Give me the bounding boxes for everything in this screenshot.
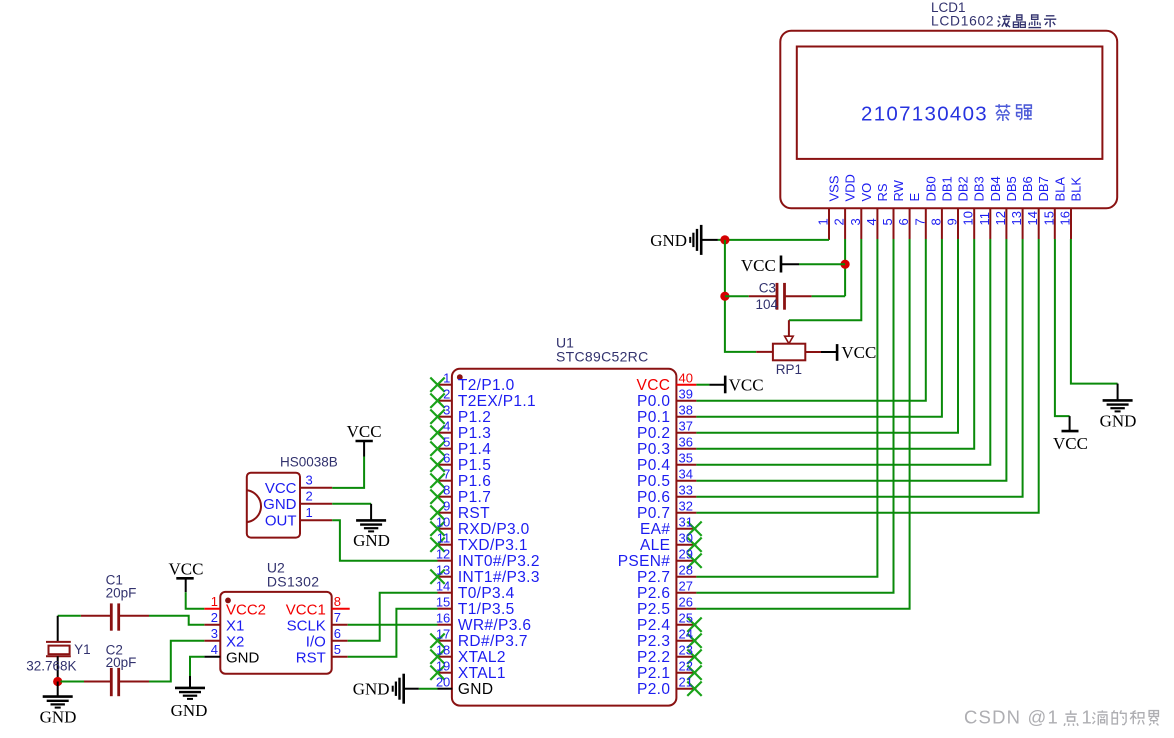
LCD1 pin 3 VO stub xyxy=(860,208,862,239)
U1 pin 13 INT1#/P3.3 stub xyxy=(438,576,453,578)
wire P0.3 to DB3 xyxy=(696,239,974,449)
U1 pin 8 P1.7 stub xyxy=(438,496,453,498)
svg-text:7: 7 xyxy=(443,467,450,482)
svg-text:40: 40 xyxy=(679,371,693,386)
ground at LCD VSS xyxy=(700,225,703,255)
svg-text:27: 27 xyxy=(679,579,693,594)
HS0038B lens arc xyxy=(247,490,261,522)
svg-text:X2: X2 xyxy=(226,634,244,651)
svg-text:18: 18 xyxy=(436,643,450,658)
capacitor C2 xyxy=(84,681,111,683)
svg-text:I/O: I/O xyxy=(306,634,326,651)
U2 pin 2 X1 stub xyxy=(204,624,220,626)
svg-text:13: 13 xyxy=(436,563,450,578)
svg-text:CSDN @1: CSDN @1 xyxy=(964,707,1059,728)
svg-text:5: 5 xyxy=(334,642,341,657)
LCD1 pin 8 DB1 stub xyxy=(941,208,943,239)
svg-text:VO: VO xyxy=(859,183,874,202)
ground below U2 xyxy=(189,676,191,687)
svg-text:T1/P3.5: T1/P3.5 xyxy=(458,601,515,618)
svg-text:1: 1 xyxy=(816,218,831,225)
svg-text:P1.5: P1.5 xyxy=(458,457,491,474)
svg-text:6: 6 xyxy=(443,451,450,466)
LCD1 pin 5 RW stub xyxy=(893,208,895,239)
svg-text:PSEN#: PSEN# xyxy=(618,553,671,570)
svg-text:11: 11 xyxy=(977,212,992,226)
wire VO to RP1 wiper xyxy=(789,239,861,320)
svg-text:P1.2: P1.2 xyxy=(458,409,491,426)
svg-text:GND: GND xyxy=(1100,412,1137,431)
svg-text:P2.7: P2.7 xyxy=(637,569,670,586)
svg-text:36: 36 xyxy=(679,435,693,450)
U1 pin 17 RD#/P3.7 stub xyxy=(438,640,453,642)
svg-text:VCC: VCC xyxy=(637,377,671,394)
svg-text:P1.7: P1.7 xyxy=(458,489,491,506)
HS0038B pin 2 GND stub xyxy=(300,503,332,505)
svg-text:25: 25 xyxy=(679,611,693,626)
U1 pin 22 P2.1 stub xyxy=(676,672,696,674)
U1 pin 4 P1.3 stub xyxy=(438,432,453,434)
svg-text:DB7: DB7 xyxy=(1036,176,1051,201)
U1 pin 22 no-connect X xyxy=(687,666,701,680)
junction Y1 C2 GND xyxy=(53,677,62,686)
U1 pin 30 ALE stub xyxy=(676,544,696,546)
U1 pin 10 no-connect X xyxy=(430,522,444,536)
svg-text:3: 3 xyxy=(443,403,450,418)
U2 body xyxy=(220,592,331,674)
svg-text:P2.5: P2.5 xyxy=(637,601,670,618)
svg-text:P0.7: P0.7 xyxy=(637,505,670,522)
U1 pin 18 XTAL2 stub xyxy=(438,656,453,658)
svg-text:2107130403: 2107130403 xyxy=(861,102,988,125)
svg-text:RW: RW xyxy=(891,179,906,201)
wire X1 net top rail xyxy=(58,615,81,617)
U1 pin 24 no-connect X xyxy=(687,634,701,648)
svg-text:BLA: BLA xyxy=(1052,177,1067,202)
wire U2 RST to U1 T1 xyxy=(348,609,438,657)
LCD1 pin 9 DB2 stub xyxy=(957,208,959,239)
U1 pin 9 no-connect X xyxy=(430,506,444,520)
U2 pin-1 marker dot xyxy=(225,598,231,604)
LCD1 display CJK 蔡强 xyxy=(995,104,1010,121)
power port VCC at RP1 xyxy=(821,351,837,353)
svg-text:P0.4: P0.4 xyxy=(637,457,670,474)
svg-text:11: 11 xyxy=(437,531,451,546)
svg-text:VCC1: VCC1 xyxy=(286,602,326,619)
U1 pin 25 P2.4 stub xyxy=(676,624,696,626)
crystal Y1 xyxy=(57,616,59,642)
svg-text:T2/P1.0: T2/P1.0 xyxy=(458,377,515,394)
svg-text:23: 23 xyxy=(679,643,693,658)
wire P0.6 to DB6 xyxy=(696,239,1022,497)
svg-text:2: 2 xyxy=(832,218,847,225)
svg-text:DB5: DB5 xyxy=(1004,176,1019,201)
U1 pin 11 no-connect X xyxy=(430,538,444,552)
U1 pin 10 RXD/P3.0 stub xyxy=(438,528,453,530)
svg-text:GND: GND xyxy=(171,701,208,720)
wire U1 pin40 to VCC xyxy=(696,384,709,386)
wire U2 I/O to U1 T0 xyxy=(348,593,438,641)
wire X2 net bottom rail xyxy=(61,681,85,683)
U1 pin 26 P2.5 stub xyxy=(676,608,696,610)
wire P2.5 to E xyxy=(696,239,909,609)
svg-text:RST: RST xyxy=(458,505,490,522)
potentiometer RP1 wiper arrow xyxy=(788,320,790,336)
U1 pin 37 P0.2 stub xyxy=(676,432,696,434)
svg-text:GND: GND xyxy=(353,680,390,699)
wire HS0038B OUT to U1 INT0 xyxy=(332,520,437,561)
power port VCC below BLA xyxy=(1069,416,1071,431)
svg-text:24: 24 xyxy=(679,627,693,642)
svg-text:GND: GND xyxy=(40,708,77,727)
svg-text:RXD/P3.0: RXD/P3.0 xyxy=(458,521,530,538)
U1 pin 35 P0.4 stub xyxy=(676,464,696,466)
svg-text:1: 1 xyxy=(306,505,313,520)
svg-text:8: 8 xyxy=(443,483,450,498)
svg-text:2: 2 xyxy=(306,489,313,504)
LCD1 pin 7 DB0 stub xyxy=(925,208,927,239)
svg-text:P2.0: P2.0 xyxy=(637,681,670,698)
svg-text:29: 29 xyxy=(679,547,693,562)
wire P2.6 to RW xyxy=(696,239,893,593)
svg-text:22: 22 xyxy=(679,659,693,674)
svg-text:RP1: RP1 xyxy=(776,362,802,377)
svg-text:TXD/P3.1: TXD/P3.1 xyxy=(458,537,528,554)
junction VSS net xyxy=(720,235,729,244)
ground below HS0038B xyxy=(370,504,372,520)
svg-text:P0.6: P0.6 xyxy=(637,489,670,506)
svg-text:VCC: VCC xyxy=(169,560,204,579)
svg-text:P2.2: P2.2 xyxy=(637,649,670,666)
capacitor C1 xyxy=(81,615,112,617)
U1 pin 9 RST stub xyxy=(438,512,453,514)
svg-text:P1.6: P1.6 xyxy=(458,473,491,490)
U1 pin 2 no-connect X xyxy=(430,394,444,408)
svg-text:31: 31 xyxy=(679,515,693,530)
U1 pin 2 T2EX/P1.1 stub xyxy=(438,400,453,402)
svg-text:HS0038B: HS0038B xyxy=(280,455,338,470)
U1 pin 14 T0/P3.4 stub xyxy=(438,592,453,594)
potentiometer RP1 left lead xyxy=(756,351,773,353)
svg-text:37: 37 xyxy=(679,419,693,434)
U2 pin 1 VCC2 stub xyxy=(204,608,220,610)
U2 pin 6 I/O stub xyxy=(332,640,348,642)
U1 pin 19 XTAL1 stub xyxy=(438,672,453,674)
LCD1 pin 1 VSS stub xyxy=(828,208,830,240)
svg-text:DB6: DB6 xyxy=(1020,176,1035,201)
U1 pin 38 P0.1 stub xyxy=(676,416,696,418)
power port VCC at U1 pin40 xyxy=(709,384,725,386)
svg-text:19: 19 xyxy=(436,659,450,674)
svg-text:15: 15 xyxy=(436,595,450,610)
wire VSS to ground xyxy=(718,239,829,241)
svg-text:16: 16 xyxy=(436,611,450,626)
U1 pin 7 P1.6 stub xyxy=(438,480,453,482)
U1 pin 27 P2.6 stub xyxy=(676,592,696,594)
ground below Y1 xyxy=(57,682,59,696)
U1 pin 29 no-connect X xyxy=(687,554,701,568)
svg-text:3: 3 xyxy=(848,218,863,225)
svg-text:DS1302: DS1302 xyxy=(267,574,319,590)
svg-text:Y1: Y1 xyxy=(74,642,91,657)
svg-text:OUT: OUT xyxy=(265,512,297,529)
watermark CJK 点1滴的积累 xyxy=(1064,710,1078,725)
wire P0.1 to DB1 xyxy=(696,239,942,417)
LCD1 pin 10 DB3 stub xyxy=(973,208,975,239)
U1 pin 29 PSEN# stub xyxy=(676,560,696,562)
HS0038B body xyxy=(247,473,300,538)
svg-text:SCLK: SCLK xyxy=(287,618,326,635)
svg-text:33: 33 xyxy=(679,483,693,498)
svg-text:20pF: 20pF xyxy=(106,586,137,601)
LCD1 outer body xyxy=(780,31,1117,209)
svg-text:P0.2: P0.2 xyxy=(637,425,670,442)
U1 pin 15 T1/P3.5 stub xyxy=(438,608,453,610)
wire BLK to GND xyxy=(1071,239,1118,384)
U2 pin 4 GND stub xyxy=(204,656,220,658)
svg-text:P1.3: P1.3 xyxy=(458,425,491,442)
svg-text:C3: C3 xyxy=(759,281,776,296)
svg-text:VCC2: VCC2 xyxy=(226,602,266,619)
svg-text:GND: GND xyxy=(650,231,687,250)
svg-text:7: 7 xyxy=(334,610,341,625)
U1 pin 21 P2.0 stub xyxy=(676,688,696,690)
svg-text:INT0#/P3.2: INT0#/P3.2 xyxy=(458,553,540,570)
svg-text:15: 15 xyxy=(1041,211,1056,225)
svg-text:DB0: DB0 xyxy=(923,176,938,201)
svg-text:12: 12 xyxy=(436,547,450,562)
LCD1 pin 14 DB7 stub xyxy=(1038,208,1040,239)
svg-text:4: 4 xyxy=(864,218,879,225)
wire P0.7 to DB7 xyxy=(696,239,1038,513)
svg-text:EA#: EA# xyxy=(640,521,670,538)
svg-text:ALE: ALE xyxy=(640,537,670,554)
U1 pin 3 P1.2 stub xyxy=(438,416,453,418)
U1 pin 17 no-connect X xyxy=(430,634,444,648)
wire HS0038B pin3 to VCC xyxy=(332,457,364,488)
svg-text:XTAL2: XTAL2 xyxy=(458,649,506,666)
svg-text:VCC: VCC xyxy=(1053,434,1088,453)
svg-text:1: 1 xyxy=(443,371,450,386)
U1 pin-1 marker dot xyxy=(457,374,463,380)
U1 pin 1 T2/P1.0 stub xyxy=(438,384,453,386)
svg-text:T2EX/P1.1: T2EX/P1.1 xyxy=(458,393,536,410)
U1 pin 31 EA# stub xyxy=(676,528,696,530)
svg-text:26: 26 xyxy=(679,595,693,610)
U1 pin 20 GND stub xyxy=(438,688,453,690)
U1 pin 36 P0.3 stub xyxy=(676,448,696,450)
svg-text:17: 17 xyxy=(436,627,450,642)
svg-text:P0.0: P0.0 xyxy=(637,393,670,410)
svg-text:P0.5: P0.5 xyxy=(637,473,670,490)
U1 pin 33 P0.6 stub xyxy=(676,496,696,498)
svg-text:20: 20 xyxy=(436,675,450,690)
svg-text:6: 6 xyxy=(334,626,341,641)
U2 pin 3 X2 stub xyxy=(204,640,220,642)
U1 pin 25 no-connect X xyxy=(687,618,701,632)
svg-text:VCC: VCC xyxy=(265,480,297,497)
U2 pin 5 RST stub xyxy=(332,656,348,658)
junction VDD VCC xyxy=(841,260,850,269)
svg-text:WR#/P3.6: WR#/P3.6 xyxy=(458,617,531,634)
U1 pin 40 VCC stub xyxy=(676,384,696,386)
U1 pin 24 P2.3 stub xyxy=(676,640,696,642)
U1 pin 6 P1.5 stub xyxy=(438,464,453,466)
svg-text:GND: GND xyxy=(353,531,390,550)
svg-text:P1.4: P1.4 xyxy=(458,441,491,458)
svg-text:10: 10 xyxy=(436,515,450,530)
svg-text:VDD: VDD xyxy=(843,174,858,201)
wire VCC to VDD junction xyxy=(799,263,845,265)
wire C3 right to VDD net xyxy=(812,295,846,297)
U1 pin 16 WR#/P3.6 stub xyxy=(438,624,453,626)
svg-text:GND: GND xyxy=(458,681,494,698)
LCD1 pin 4 RS stub xyxy=(876,208,878,239)
svg-text:DB4: DB4 xyxy=(988,176,1003,201)
svg-text:RD#/P3.7: RD#/P3.7 xyxy=(458,633,528,650)
svg-text:E: E xyxy=(907,193,922,202)
svg-text:1: 1 xyxy=(211,594,218,609)
LCD1 pin 6 E stub xyxy=(909,208,911,239)
svg-text:32: 32 xyxy=(679,499,693,514)
svg-text:2: 2 xyxy=(211,610,218,625)
svg-text:104: 104 xyxy=(755,297,778,312)
svg-text:GND: GND xyxy=(263,496,297,513)
wire U2 pin4 to GND xyxy=(190,657,204,676)
svg-text:X1: X1 xyxy=(226,618,244,635)
wire VCC to U2 pin1 xyxy=(186,592,205,609)
svg-text:BLK: BLK xyxy=(1069,177,1084,202)
svg-text:14: 14 xyxy=(436,579,450,594)
U1 pin 4 no-connect X xyxy=(430,426,444,440)
U1 body xyxy=(452,369,677,706)
svg-text:DB1: DB1 xyxy=(939,176,954,201)
svg-text:INT1#/P3.3: INT1#/P3.3 xyxy=(458,569,540,586)
U1 pin 11 TXD/P3.1 stub xyxy=(438,544,453,546)
svg-text:14: 14 xyxy=(1025,211,1040,225)
LCD1 display window xyxy=(797,47,1103,159)
svg-text:3: 3 xyxy=(211,626,218,641)
wire BLA to VCC xyxy=(1055,239,1070,416)
LCD1 pin 13 DB6 stub xyxy=(1022,208,1024,239)
wire U1 pin20 to GND xyxy=(419,688,438,690)
junction C3 left xyxy=(720,292,729,301)
U1 pin 32 P0.7 stub xyxy=(676,512,696,514)
svg-text:P2.6: P2.6 xyxy=(637,585,670,602)
svg-text:35: 35 xyxy=(679,451,693,466)
svg-text:8: 8 xyxy=(928,218,943,225)
svg-text:VCC: VCC xyxy=(741,256,776,275)
power port VCC above HS0038B xyxy=(363,442,365,457)
capacitor C3 xyxy=(749,295,777,297)
U1 pin 30 no-connect X xyxy=(687,538,701,552)
U1 pin 39 P0.0 stub xyxy=(676,400,696,402)
svg-text:10: 10 xyxy=(961,211,976,225)
wire C3 left xyxy=(725,295,749,297)
svg-text:DB3: DB3 xyxy=(972,176,987,201)
LCD1 pin 11 DB4 stub xyxy=(989,208,991,239)
svg-text:34: 34 xyxy=(679,467,693,482)
svg-text:XTAL1: XTAL1 xyxy=(458,665,506,682)
svg-text:LCD1602: LCD1602 xyxy=(931,14,994,29)
svg-text:3: 3 xyxy=(306,473,313,488)
svg-text:T0/P3.4: T0/P3.4 xyxy=(458,585,515,602)
wire HS0038B pin2 to GND xyxy=(332,503,371,505)
svg-text:5: 5 xyxy=(880,218,895,225)
svg-text:5: 5 xyxy=(443,435,450,450)
svg-text:STC89C52RC: STC89C52RC xyxy=(556,349,648,365)
U2 pin 8 VCC1 stub xyxy=(332,608,350,610)
U1 pin 6 no-connect X xyxy=(430,458,444,472)
HS0038B pin 1 OUT stub xyxy=(300,519,332,521)
U2 pin 7 SCLK stub xyxy=(332,624,348,626)
wire GND net down to C3 and RP1 xyxy=(725,240,756,352)
LCD1 pin 2 VDD stub xyxy=(844,208,846,239)
svg-text:RST: RST xyxy=(296,650,326,667)
HS0038B pin 3 VCC stub xyxy=(300,487,332,489)
svg-text:16: 16 xyxy=(1058,211,1073,225)
U1 pin 31 no-connect X xyxy=(687,522,701,536)
svg-text:39: 39 xyxy=(679,387,693,402)
svg-text:GND: GND xyxy=(226,650,260,667)
svg-text:4: 4 xyxy=(211,642,218,657)
svg-text:VSS: VSS xyxy=(827,175,842,201)
wire P0.0 to DB0 xyxy=(696,239,925,401)
svg-text:28: 28 xyxy=(679,563,693,578)
potentiometer RP1 body xyxy=(773,344,805,361)
svg-text:P2.1: P2.1 xyxy=(637,665,670,682)
U1 pin 34 P0.5 stub xyxy=(676,480,696,482)
svg-text:7: 7 xyxy=(912,218,927,225)
U1 pin 5 no-connect X xyxy=(430,442,444,456)
U1 pin 8 no-connect X xyxy=(430,490,444,504)
U1 pin 13 no-connect X xyxy=(430,570,444,584)
svg-text:4: 4 xyxy=(443,419,450,434)
wire P0.5 to DB5 xyxy=(696,239,1006,481)
wire P2.7 to RS xyxy=(696,239,877,577)
svg-text:8: 8 xyxy=(334,594,341,609)
svg-text:2: 2 xyxy=(443,387,450,402)
potentiometer RP1 right lead xyxy=(805,351,821,353)
wire VDD column xyxy=(844,239,846,296)
LCD1 pin 12 DB5 stub xyxy=(1005,208,1007,239)
svg-text:P2.3: P2.3 xyxy=(637,633,670,650)
svg-text:1: 1 xyxy=(1082,707,1092,728)
wire P0.2 to DB2 xyxy=(696,239,958,433)
svg-text:13: 13 xyxy=(1009,211,1024,225)
LCD1 pin 16 BLK stub xyxy=(1070,208,1072,239)
svg-text:20pF: 20pF xyxy=(106,655,137,670)
svg-text:VCC: VCC xyxy=(729,376,764,395)
svg-text:38: 38 xyxy=(679,403,693,418)
svg-text:P0.1: P0.1 xyxy=(637,409,670,426)
wire U2 SCLK to U1 WR xyxy=(348,624,438,626)
svg-text:VCC: VCC xyxy=(347,422,382,441)
ground at U1 pin20 xyxy=(402,674,405,704)
U1 pin 12 INT0#/P3.2 stub xyxy=(438,560,453,562)
wire P0.4 to DB4 xyxy=(696,239,990,465)
U1 pin 5 P1.4 stub xyxy=(438,448,453,450)
U1 pin 23 no-connect X xyxy=(687,650,701,664)
svg-text:P2.4: P2.4 xyxy=(637,617,670,634)
svg-text:12: 12 xyxy=(993,211,1008,225)
LCD1 comment CJK 液晶显示 xyxy=(998,15,1011,27)
svg-text:9: 9 xyxy=(443,499,450,514)
U1 pin 7 no-connect X xyxy=(430,474,444,488)
ground below BLK xyxy=(1117,384,1119,400)
svg-text:9: 9 xyxy=(945,218,960,225)
U1 pin 3 no-connect X xyxy=(430,410,444,424)
